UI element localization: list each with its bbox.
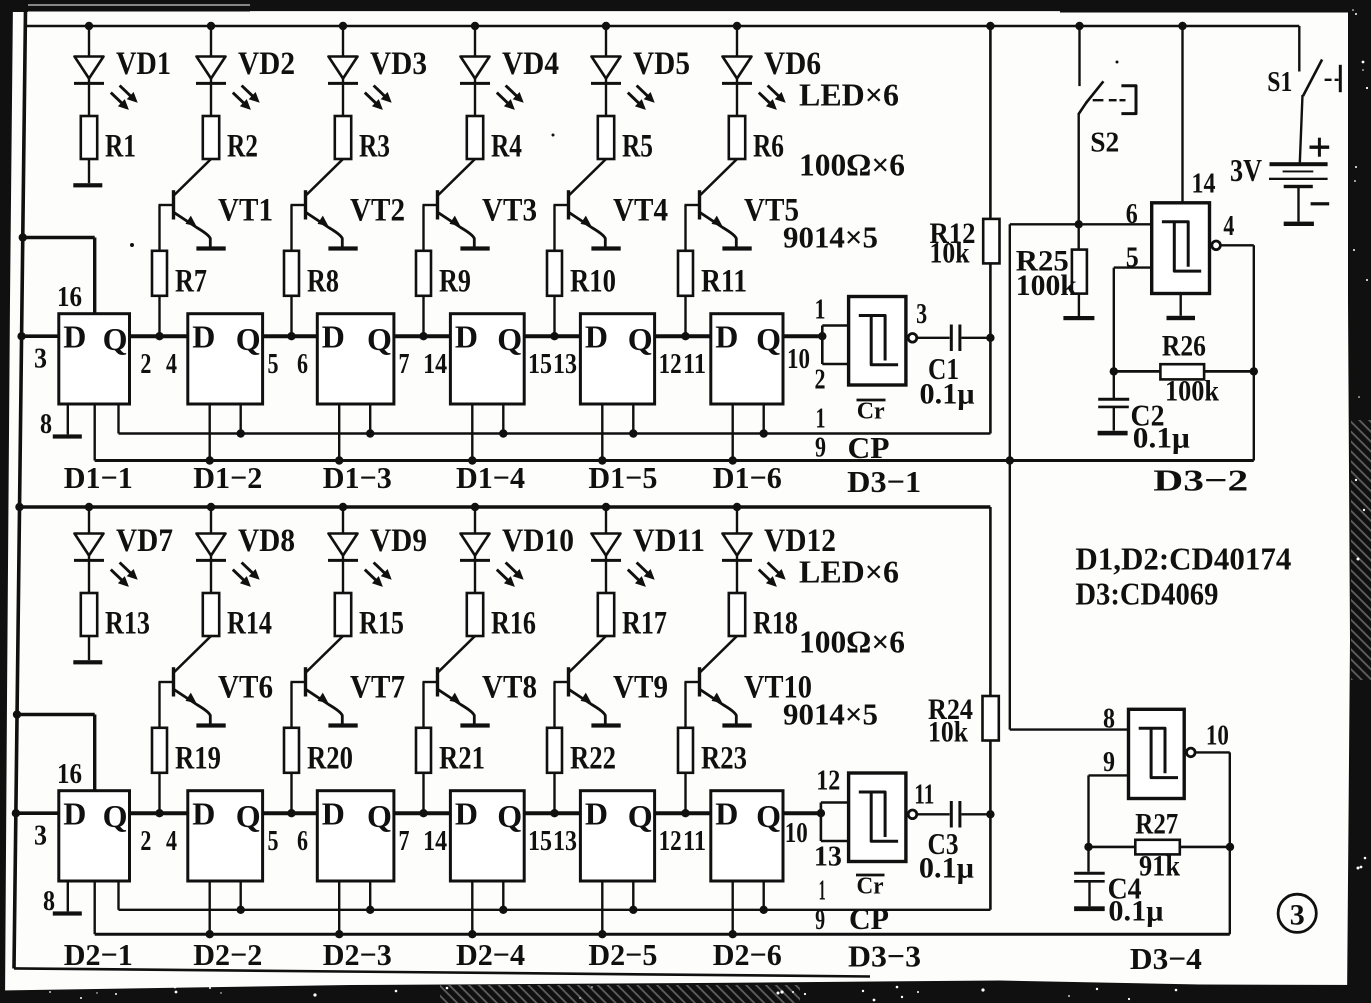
svg-text:Q: Q — [628, 321, 653, 357]
svg-text:D2−6: D2−6 — [713, 937, 782, 972]
svg-text:15: 15 — [528, 825, 552, 857]
svg-text:LED×6: LED×6 — [799, 77, 899, 113]
svg-text:R16: R16 — [491, 605, 536, 641]
svg-text:2: 2 — [140, 825, 151, 857]
svg-text:4: 4 — [166, 825, 177, 857]
svg-text:9014×5: 9014×5 — [783, 220, 878, 255]
svg-text:D: D — [322, 796, 345, 832]
svg-text:Q: Q — [497, 321, 522, 357]
svg-text:D2−3: D2−3 — [323, 937, 392, 972]
svg-text:Q: Q — [497, 798, 522, 834]
svg-text:D: D — [585, 796, 608, 832]
svg-text:10: 10 — [787, 343, 810, 375]
svg-text:3: 3 — [916, 298, 927, 330]
svg-text:R20: R20 — [307, 741, 353, 777]
svg-text:1: 1 — [816, 403, 826, 435]
svg-text:Q: Q — [236, 798, 261, 834]
svg-text:D: D — [63, 796, 86, 832]
svg-text:16: 16 — [57, 758, 82, 790]
svg-text:R22: R22 — [570, 741, 616, 777]
svg-text:D: D — [715, 796, 738, 832]
svg-text:7: 7 — [399, 348, 410, 380]
svg-text:VD7: VD7 — [116, 523, 173, 559]
svg-text:R5: R5 — [622, 128, 653, 164]
svg-text:VT6: VT6 — [218, 670, 273, 706]
svg-text:Q: Q — [236, 321, 261, 357]
svg-text:12: 12 — [659, 825, 682, 857]
svg-text:VT1: VT1 — [218, 193, 273, 229]
svg-text:D2−2: D2−2 — [193, 937, 262, 972]
svg-text:13: 13 — [553, 825, 577, 857]
svg-text:Q: Q — [103, 798, 128, 834]
svg-text:D3:CD4069: D3:CD4069 — [1075, 576, 1218, 612]
svg-text:11: 11 — [683, 825, 706, 857]
svg-text:R14: R14 — [227, 605, 272, 641]
svg-text:D3−3: D3−3 — [848, 939, 921, 974]
svg-text:13: 13 — [814, 841, 842, 873]
svg-text:D2−5: D2−5 — [588, 937, 657, 972]
svg-text:R27: R27 — [1135, 808, 1178, 841]
svg-text:9: 9 — [815, 432, 826, 464]
svg-text:R23: R23 — [701, 741, 747, 777]
svg-text:R10: R10 — [570, 264, 616, 300]
svg-text:D3−1: D3−1 — [847, 464, 921, 499]
svg-text:R3: R3 — [359, 128, 390, 164]
svg-text:14: 14 — [423, 825, 447, 857]
svg-text:Q: Q — [367, 321, 392, 357]
svg-text:3V: 3V — [1230, 152, 1262, 188]
svg-text:4: 4 — [166, 348, 177, 380]
svg-text:LED×6: LED×6 — [799, 554, 899, 590]
svg-text:R11: R11 — [701, 264, 747, 300]
svg-text:VT4: VT4 — [613, 193, 668, 229]
svg-text:S2: S2 — [1090, 126, 1119, 158]
svg-text:5: 5 — [268, 348, 279, 380]
svg-text:VD8: VD8 — [238, 523, 295, 559]
svg-text:D: D — [715, 319, 738, 355]
svg-text:1: 1 — [819, 875, 826, 907]
svg-text:12: 12 — [816, 765, 840, 797]
svg-text:VD5: VD5 — [633, 46, 690, 82]
svg-text:VD10: VD10 — [502, 523, 574, 559]
svg-text:10k: 10k — [928, 716, 968, 749]
svg-text:R21: R21 — [439, 741, 485, 777]
svg-text:VT8: VT8 — [482, 670, 537, 706]
svg-text:R1: R1 — [105, 128, 136, 164]
svg-text:1: 1 — [815, 294, 826, 326]
svg-text:2: 2 — [815, 364, 826, 396]
svg-text:0.1μ: 0.1μ — [920, 378, 975, 411]
svg-text:D: D — [455, 319, 478, 355]
svg-text:100Ω×6: 100Ω×6 — [799, 147, 905, 183]
svg-text:D: D — [455, 796, 478, 832]
svg-text:CP: CP — [848, 430, 890, 465]
svg-text:VD11: VD11 — [633, 523, 705, 559]
svg-text:R13: R13 — [105, 605, 150, 641]
svg-text:D1−2: D1−2 — [193, 460, 262, 495]
svg-text:R17: R17 — [622, 605, 667, 641]
svg-text:VD3: VD3 — [370, 46, 427, 82]
svg-text:D2−1: D2−1 — [64, 937, 133, 972]
svg-text:D3−2: D3−2 — [1153, 463, 1248, 498]
svg-text:9: 9 — [815, 904, 825, 936]
svg-text:VD4: VD4 — [502, 46, 559, 82]
svg-text:13: 13 — [553, 348, 577, 380]
svg-text:10k: 10k — [930, 237, 970, 270]
svg-text:D: D — [192, 796, 215, 832]
svg-text:VT3: VT3 — [482, 193, 537, 229]
svg-text:10: 10 — [1206, 720, 1229, 752]
svg-text:R15: R15 — [359, 605, 404, 641]
svg-text:6: 6 — [297, 348, 308, 380]
svg-text:12: 12 — [659, 348, 682, 380]
svg-text:VT7: VT7 — [350, 670, 405, 706]
svg-text:D1−5: D1−5 — [588, 460, 657, 495]
svg-text:3: 3 — [34, 343, 47, 375]
svg-text:9014×5: 9014×5 — [783, 697, 878, 732]
svg-text:D1,D2:CD40174: D1,D2:CD40174 — [1075, 541, 1291, 577]
svg-text:VT2: VT2 — [350, 193, 405, 229]
svg-text:0.1μ: 0.1μ — [1108, 895, 1163, 928]
svg-text:D: D — [192, 319, 215, 355]
svg-text:D: D — [585, 319, 608, 355]
svg-text:D1−6: D1−6 — [713, 460, 782, 495]
svg-text:S1: S1 — [1267, 66, 1292, 98]
svg-text:8: 8 — [40, 408, 52, 440]
svg-text:D2−4: D2−4 — [456, 937, 525, 972]
svg-text:D3−4: D3−4 — [1130, 941, 1202, 976]
svg-text:VD2: VD2 — [238, 46, 295, 82]
svg-text:14: 14 — [1192, 168, 1216, 200]
svg-text:100k: 100k — [1016, 269, 1077, 302]
svg-text:16: 16 — [57, 281, 82, 313]
svg-text:R6: R6 — [753, 128, 784, 164]
svg-text:6: 6 — [297, 825, 308, 857]
svg-text:R18: R18 — [753, 605, 798, 641]
svg-text:11: 11 — [914, 779, 934, 811]
svg-text:R9: R9 — [439, 264, 471, 300]
svg-text:3: 3 — [1290, 899, 1305, 932]
svg-text:D1−4: D1−4 — [456, 460, 525, 495]
svg-text:D1−1: D1−1 — [64, 460, 133, 495]
svg-text:Q: Q — [103, 321, 128, 357]
svg-text:R7: R7 — [175, 264, 207, 300]
svg-text:10: 10 — [785, 817, 808, 849]
svg-text:2: 2 — [140, 348, 151, 380]
svg-text:R4: R4 — [491, 128, 522, 164]
svg-text:100Ω×6: 100Ω×6 — [799, 624, 905, 660]
svg-text:Q: Q — [628, 798, 653, 834]
svg-text:Cr: Cr — [857, 874, 884, 900]
svg-text:8: 8 — [43, 885, 55, 917]
svg-text:Q: Q — [367, 798, 392, 834]
svg-text:R19: R19 — [175, 741, 221, 777]
svg-text:R2: R2 — [227, 128, 258, 164]
svg-text:5: 5 — [268, 825, 279, 857]
svg-text:Q: Q — [756, 321, 781, 357]
svg-text:14: 14 — [423, 348, 447, 380]
svg-text:D: D — [63, 319, 86, 355]
svg-text:VD9: VD9 — [370, 523, 427, 559]
svg-text:9: 9 — [1103, 746, 1115, 778]
svg-text:100k: 100k — [1165, 375, 1219, 408]
svg-text:Q: Q — [756, 798, 781, 834]
svg-text:91k: 91k — [1139, 850, 1180, 883]
svg-text:R26: R26 — [1162, 330, 1206, 363]
svg-text:CP: CP — [849, 901, 889, 936]
svg-text:VT9: VT9 — [613, 670, 668, 706]
svg-text:0.1μ: 0.1μ — [919, 852, 974, 885]
svg-text:3: 3 — [34, 820, 47, 852]
svg-text:R8: R8 — [307, 264, 339, 300]
svg-text:6: 6 — [1126, 198, 1138, 230]
svg-text:D: D — [322, 319, 345, 355]
svg-text:11: 11 — [683, 348, 706, 380]
svg-text:Cr: Cr — [857, 399, 885, 425]
svg-text:4: 4 — [1223, 210, 1234, 242]
svg-text:VD1: VD1 — [116, 46, 171, 82]
svg-text:0.1μ: 0.1μ — [1133, 422, 1190, 455]
svg-text:7: 7 — [399, 825, 410, 857]
svg-text:15: 15 — [528, 348, 552, 380]
svg-text:D1−3: D1−3 — [323, 460, 392, 495]
svg-text:5: 5 — [1126, 242, 1139, 274]
svg-text:8: 8 — [1103, 703, 1115, 735]
